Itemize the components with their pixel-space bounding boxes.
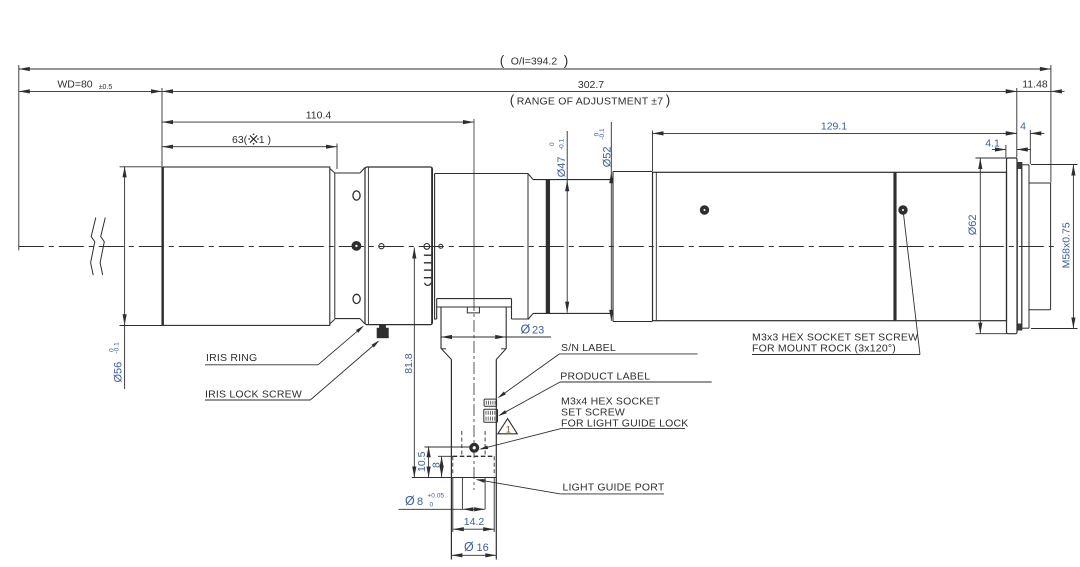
ext M58 top/bottom bbox=[1031, 164, 1078, 166]
ext line flange left bbox=[1005, 145, 1007, 158]
dim 10.5 bbox=[428, 446, 430, 477]
svg-text:302.7: 302.7 bbox=[578, 79, 604, 91]
svg-text:+0.05: +0.05 bbox=[428, 493, 445, 500]
iris scale C mark bbox=[425, 283, 431, 286]
Phi8 ext lines bbox=[461, 478, 463, 510]
flange Phi62 bbox=[1007, 158, 1018, 334]
ext line right (image plane / O-I + 11.48) bbox=[1050, 65, 1052, 183]
svg-text:IRIS LOCK SCREW: IRIS LOCK SCREW bbox=[205, 389, 302, 401]
Phi52 section bbox=[612, 172, 614, 322]
svg-text:8: 8 bbox=[417, 496, 423, 508]
svg-text:): ) bbox=[666, 93, 671, 108]
port cone bbox=[441, 348, 446, 350]
rear barrel black band bbox=[894, 173, 897, 320]
break symbol bbox=[91, 218, 96, 276]
svg-text:O/I=394.2: O/I=394.2 bbox=[511, 56, 558, 68]
iris scale ticks bbox=[424, 254, 432, 256]
ext line screw center bbox=[425, 446, 474, 448]
svg-text:-0.1: -0.1 bbox=[114, 342, 121, 354]
svg-text:129.1: 129.1 bbox=[821, 121, 847, 133]
svg-text:4: 4 bbox=[1020, 121, 1026, 133]
svg-text:110.4: 110.4 bbox=[306, 110, 332, 122]
svg-text:FOR LIGHT GUIDE LOCK: FOR LIGHT GUIDE LOCK bbox=[561, 418, 689, 430]
S/N label sticker bbox=[484, 399, 497, 406]
svg-text:16: 16 bbox=[477, 542, 489, 554]
dim 110.4 bbox=[162, 121, 474, 123]
iris ring inner right line bbox=[431, 167, 433, 324]
hole top oval bbox=[353, 191, 360, 200]
dim 81.8 bbox=[413, 248, 415, 478]
svg-text:63(: 63( bbox=[232, 134, 248, 146]
hole bottom oval bbox=[353, 294, 360, 303]
svg-text:-0.1: -0.1 bbox=[558, 138, 565, 150]
dim Phi47 bbox=[566, 131, 568, 313]
rear barrel bbox=[653, 172, 1007, 320]
ext line 63 right bbox=[336, 144, 338, 170]
black band (focus ring seam) bbox=[546, 180, 550, 313]
dim Phi52 bbox=[610, 122, 612, 321]
svg-text:-0.1: -0.1 bbox=[599, 128, 606, 140]
svg-text:11.48: 11.48 bbox=[1022, 79, 1048, 91]
svg-text:LIGHT GUIDE PORT: LIGHT GUIDE PORT bbox=[563, 481, 665, 493]
svg-text:81.8: 81.8 bbox=[403, 353, 415, 374]
port face line / ext bbox=[412, 477, 497, 479]
svg-text:): ) bbox=[564, 53, 569, 68]
svg-text:IRIS RING: IRIS RING bbox=[206, 352, 257, 364]
bevel tube to cone section bbox=[528, 174, 533, 180]
svg-text:4.1: 4.1 bbox=[985, 138, 1000, 150]
dim 11.48 bbox=[1017, 90, 1051, 92]
svg-text:(: ( bbox=[500, 53, 505, 68]
thread section bbox=[1022, 164, 1029, 166]
rear cylinder bbox=[1029, 182, 1051, 184]
svg-text:Ø62: Ø62 bbox=[967, 215, 979, 236]
svg-text:PRODUCT LABEL: PRODUCT LABEL bbox=[560, 371, 650, 383]
svg-text:10.5: 10.5 bbox=[416, 451, 428, 472]
iris lock screw (black knob) bbox=[380, 325, 386, 329]
svg-text:1 ): 1 ) bbox=[259, 134, 271, 146]
bevel barrel to holes ring bbox=[330, 169, 335, 174]
port plate bbox=[437, 298, 512, 300]
iris ring small circle left bbox=[379, 244, 384, 249]
rear barrel screw 2 bbox=[899, 206, 907, 214]
leader M3x3 bbox=[904, 214, 921, 355]
dim 129.1 bbox=[653, 132, 1017, 134]
dim Phi23 bbox=[441, 336, 551, 338]
svg-text:FOR MOUNT ROCK (3x120°): FOR MOUNT ROCK (3x120°) bbox=[752, 343, 896, 355]
svg-text:Ø: Ø bbox=[521, 323, 531, 337]
tube small circle bbox=[439, 244, 443, 248]
14.2 ext lines bbox=[452, 478, 454, 533]
guide lock set screw bbox=[470, 443, 479, 452]
svg-text:0: 0 bbox=[430, 502, 434, 509]
center screw dot bbox=[352, 242, 361, 251]
dim WD=80 bbox=[19, 90, 162, 92]
ext line counterbore top bbox=[438, 455, 453, 457]
svg-text:Ø52: Ø52 bbox=[602, 147, 614, 168]
dim 8 bbox=[441, 456, 443, 477]
iris index circle bbox=[424, 244, 430, 250]
ext line front face bbox=[161, 88, 163, 166]
holes ring bbox=[335, 172, 360, 174]
cone / Phi47 section bbox=[533, 179, 613, 181]
svg-text:Ø47: Ø47 bbox=[556, 157, 568, 178]
port cylinder Phi23 bbox=[440, 307, 442, 349]
rear barrel screw 1 bbox=[700, 206, 708, 214]
bevel holes ring to iris ring bbox=[360, 168, 365, 174]
port key notch bbox=[467, 307, 479, 313]
product label sticker bbox=[484, 409, 498, 422]
ext Phi56 bottom bbox=[120, 325, 163, 327]
dim M58 bbox=[1072, 165, 1074, 329]
svg-text:RANGE OF ADJUSTMENT ±7: RANGE OF ADJUSTMENT ±7 bbox=[517, 96, 664, 108]
ext Phi62 top/bottom bbox=[976, 157, 1007, 159]
svg-text:(: ( bbox=[510, 93, 515, 108]
centerline (optical axis) bbox=[19, 246, 1056, 248]
svg-text:1: 1 bbox=[506, 424, 511, 435]
dim 4.1 bbox=[992, 149, 1006, 151]
dim 14.2 bbox=[453, 528, 494, 530]
svg-text:14.2: 14.2 bbox=[464, 516, 485, 528]
ext line 4-right (thread end) bbox=[1029, 130, 1031, 164]
ext line 302.7 right (flange face) bbox=[1016, 88, 1018, 158]
ring A bbox=[1017, 163, 1022, 331]
ext Phi56 top bbox=[120, 166, 163, 168]
svg-text:Ø56: Ø56 bbox=[113, 362, 125, 383]
counterbore hidden (14.2) bbox=[453, 455, 494, 457]
dim Phi8 bbox=[399, 508, 463, 510]
svg-text:8: 8 bbox=[431, 462, 443, 468]
dim 302.7 bbox=[162, 90, 1017, 92]
warning triangle 1 bbox=[498, 419, 518, 434]
ext line left (object plane) bbox=[18, 65, 20, 250]
dim Phi16 bbox=[451, 554, 496, 556]
svg-text:0: 0 bbox=[549, 142, 556, 146]
svg-text:Ø: Ø bbox=[464, 540, 474, 554]
svg-text:M58x0.75: M58x0.75 bbox=[1061, 222, 1073, 268]
svg-text:S/N LABEL: S/N LABEL bbox=[561, 342, 616, 354]
dim 63(x1) bbox=[162, 146, 337, 148]
svg-text:Ø: Ø bbox=[405, 494, 415, 508]
front barrel (Phi56) bbox=[162, 167, 330, 325]
main tube bbox=[434, 174, 436, 320]
iris ring bbox=[365, 167, 432, 325]
ext line rear barrel left bbox=[652, 131, 654, 172]
dim Phi56 bbox=[124, 166, 126, 389]
dim Phi62 bbox=[979, 158, 981, 334]
dim O/I=394.2 bbox=[19, 68, 1051, 70]
Phi8 hidden bore bbox=[461, 431, 463, 456]
stem Phi16 bbox=[450, 360, 452, 560]
dim 4 bbox=[1003, 132, 1017, 134]
svg-text:±0.5: ±0.5 bbox=[99, 84, 113, 91]
svg-text:23: 23 bbox=[532, 325, 544, 337]
port centerline bbox=[473, 119, 475, 299]
svg-text:WD=80: WD=80 bbox=[57, 79, 92, 91]
